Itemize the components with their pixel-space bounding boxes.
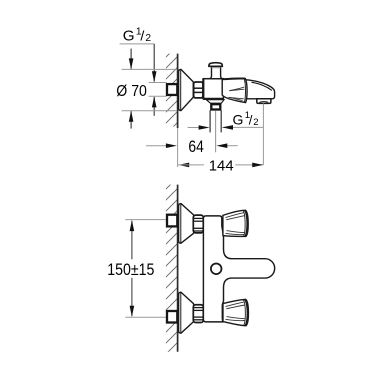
diameter 70 extension lines	[122, 68, 178, 70]
svg-text:144: 144	[209, 159, 234, 175]
dimension 150 +/- 15 extension lines	[125, 219, 166, 221]
dimension 64	[146, 145, 167, 147]
lower handle (front view)	[223, 299, 248, 325]
pipe centerline extension	[215, 111, 217, 152]
svg-text:2: 2	[145, 33, 151, 44]
wall surface line (bottom view)	[177, 185, 179, 352]
svg-text:/: /	[249, 112, 253, 127]
wall surface line (top view)	[177, 54, 179, 128]
label G 1/2 (top left)	[123, 27, 152, 45]
dimension 144	[178, 163, 189, 168]
svg-text:Ø 70: Ø 70	[116, 83, 147, 100]
spout (top view)	[243, 80, 275, 99]
svg-text:G: G	[233, 111, 244, 127]
handle (top view)	[222, 78, 247, 102]
upper handle (front view)	[223, 210, 248, 236]
leader line for pipe G1/2	[223, 126, 264, 128]
diverter knob cap	[209, 63, 222, 67]
svg-text:G: G	[123, 28, 135, 45]
mixer body (front view)	[203, 216, 274, 322]
step between body and pipe fitting	[206, 100, 224, 104]
svg-text:2: 2	[253, 117, 258, 128]
bold pipe fitting	[211, 104, 220, 109]
spout outlet	[257, 99, 271, 104]
lower escutcheon	[179, 292, 194, 333]
wall hatching (top view)	[166, 54, 178, 127]
diameter 70 stems and arrows	[130, 49, 132, 69]
svg-text:/: /	[140, 29, 144, 45]
svg-text:64: 64	[188, 138, 203, 156]
circle on body	[211, 264, 222, 275]
label G 1/2 (at pipe)	[233, 110, 259, 128]
lower hex nut	[193, 305, 203, 323]
diverter knob stem	[211, 66, 222, 78]
hex nut (top view)	[194, 82, 203, 98]
leader vertical from spout outlet	[262, 103, 264, 164]
G1/2 extension lines to square fitting	[149, 82, 167, 84]
square wall fitting (top view)	[167, 84, 177, 95]
leader line under G 1/2	[120, 43, 155, 45]
upper square wall fitting	[167, 215, 177, 227]
G1/2 dimension stem lower (arrow up)	[153, 97, 155, 116]
lower square wall fitting	[167, 311, 177, 323]
escutcheon (top view)	[179, 69, 194, 110]
upper escutcheon	[179, 204, 194, 244]
dimension 150 +/- 15 line with arrows	[131, 221, 133, 260]
shower outlet pipe below body	[209, 110, 211, 132]
wall hatching (bottom view)	[166, 185, 178, 352]
left arrow at pipe	[188, 127, 200, 129]
wall extension line down to dimensions	[177, 128, 179, 167]
mixer body (top view)	[203, 79, 223, 99]
G1/2 dimension stem upper (arrow down)	[153, 44, 155, 82]
upper hex nut	[193, 215, 203, 233]
svg-text:150±15: 150±15	[107, 260, 154, 279]
